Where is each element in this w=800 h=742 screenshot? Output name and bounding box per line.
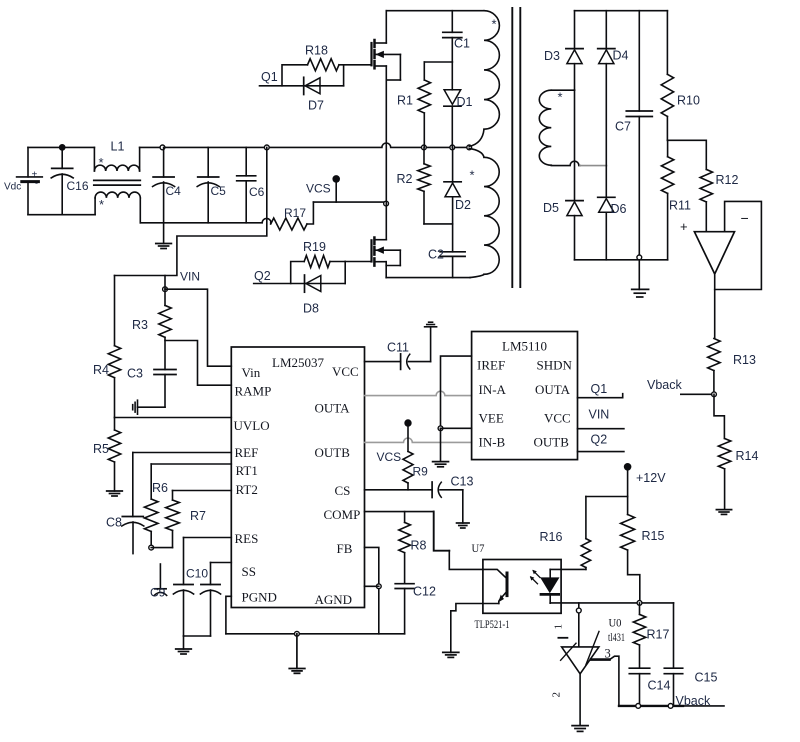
wire Vback rail <box>619 705 724 707</box>
label D3 <box>544 49 560 63</box>
pin VCC <box>544 411 571 426</box>
svg-text:IN-B: IN-B <box>479 435 506 450</box>
transformer core <box>512 8 520 287</box>
ground <box>443 652 459 657</box>
svg-text:D8: D8 <box>303 302 319 316</box>
polarity mark <box>470 168 475 183</box>
label C1 <box>454 37 470 51</box>
svg-text:*: * <box>99 155 104 170</box>
capacitor C10 <box>173 585 193 637</box>
wire pin3 <box>591 656 619 706</box>
label D4 <box>613 49 629 63</box>
node <box>576 608 581 613</box>
wire CS <box>365 489 433 491</box>
label R13 <box>733 353 756 367</box>
battery Vdc <box>17 147 43 214</box>
svg-text:FB: FB <box>337 541 353 556</box>
node <box>668 704 673 709</box>
wire <box>578 603 580 646</box>
svg-text:Vback: Vback <box>647 378 682 392</box>
svg-text:U0: U0 <box>609 616 622 630</box>
wire RES <box>184 538 232 585</box>
pin RT1 <box>236 463 258 478</box>
ground <box>176 636 192 654</box>
wire <box>28 146 94 148</box>
diode D6 <box>598 197 615 212</box>
svg-text:2: 2 <box>551 692 563 698</box>
wire Q1 line <box>260 85 344 87</box>
svg-text:IREF: IREF <box>477 358 505 373</box>
label C5 <box>211 184 227 198</box>
svg-text:RAMP: RAMP <box>235 384 272 399</box>
svg-text:Q1: Q1 <box>591 382 608 396</box>
label Vdc <box>4 182 21 193</box>
wire COMP <box>365 511 434 513</box>
label VCS2 <box>377 450 402 464</box>
capacitor C15 <box>664 603 682 706</box>
wire <box>714 394 724 438</box>
label C6 <box>249 185 265 199</box>
svg-text:C2: C2 <box>428 248 444 262</box>
node <box>637 601 642 606</box>
svg-text:-: - <box>35 178 38 188</box>
resistor R8 <box>399 512 411 584</box>
svg-text:C13: C13 <box>451 475 474 489</box>
ground inverted <box>425 322 437 327</box>
ground <box>457 490 470 528</box>
svg-text:R11: R11 <box>669 199 691 213</box>
node <box>637 255 642 260</box>
wire Q1 out <box>578 394 623 398</box>
label C13 <box>451 475 474 489</box>
diode D4 <box>598 49 615 64</box>
label C8 <box>106 516 122 530</box>
opto arrows <box>530 570 540 584</box>
svg-text:R17: R17 <box>284 206 306 220</box>
svg-text:VEE: VEE <box>479 411 504 426</box>
svg-text:R19: R19 <box>303 240 326 254</box>
label U7 <box>472 541 485 555</box>
svg-text:VCS: VCS <box>377 450 402 464</box>
diode D4 line <box>605 11 607 260</box>
resistor R13 <box>708 339 720 395</box>
svg-text:OUTB: OUTB <box>534 435 570 450</box>
label R8 <box>411 539 427 553</box>
svg-text:CS: CS <box>335 483 351 498</box>
wire AGND stub <box>365 585 379 587</box>
diode D5 <box>566 201 583 216</box>
svg-text:R10: R10 <box>677 94 700 108</box>
capacitor C9 <box>154 564 167 595</box>
svg-text:R3: R3 <box>132 318 148 332</box>
svg-text:Vin: Vin <box>242 365 261 380</box>
svg-text:C6: C6 <box>249 185 265 199</box>
resistor R5 <box>108 418 120 492</box>
label Q1 <box>261 70 278 84</box>
svg-text:C5: C5 <box>211 184 227 198</box>
pin IREF <box>477 358 505 373</box>
svg-text:RT1: RT1 <box>236 463 258 478</box>
label C11 <box>387 341 409 355</box>
wire <box>586 467 628 497</box>
svg-text:R17: R17 <box>647 628 670 642</box>
wire ground rail <box>226 633 405 635</box>
node <box>163 287 168 292</box>
label +12V <box>636 471 666 485</box>
label D2 <box>455 198 471 212</box>
polarity mark <box>558 90 563 105</box>
node <box>422 145 427 150</box>
label C14 <box>648 679 671 693</box>
wire <box>184 635 211 637</box>
wire secondary top rail <box>575 10 668 12</box>
shunt regulator U0 TL431 <box>558 631 599 673</box>
svg-text:PGND: PGND <box>242 590 277 605</box>
ground <box>716 510 731 515</box>
svg-text:+12V: +12V <box>636 471 666 485</box>
svg-text:LM5110: LM5110 <box>502 339 547 354</box>
wire emitter <box>451 604 499 653</box>
svg-text:SHDN: SHDN <box>537 358 573 373</box>
ground <box>289 634 305 674</box>
svg-text:U7: U7 <box>472 541 485 555</box>
label C7 <box>615 120 631 134</box>
ground <box>632 260 649 297</box>
capacitor C2 <box>440 252 465 278</box>
resistor R7 <box>166 491 180 548</box>
wire LED anode <box>550 568 586 570</box>
wire VCS net <box>313 201 386 203</box>
wire secondary bottom rail <box>575 259 668 261</box>
capacitor C4 <box>153 147 175 222</box>
opto LED <box>541 569 559 603</box>
node +12V dot <box>624 463 632 471</box>
resistor R10 <box>661 11 673 141</box>
capacitor C12 <box>395 584 414 634</box>
svg-text:D2: D2 <box>455 198 471 212</box>
wire <box>165 276 231 367</box>
polarity mark <box>99 197 104 212</box>
diode D8 <box>305 275 321 292</box>
pin SS <box>242 564 256 579</box>
wire <box>430 327 432 362</box>
node <box>438 426 443 431</box>
wire <box>138 406 166 408</box>
wire <box>424 61 452 63</box>
IC U1 LM25037 <box>231 347 364 608</box>
svg-text:R1: R1 <box>397 94 413 108</box>
pin SHDN <box>537 358 573 373</box>
svg-text:C1: C1 <box>454 37 470 51</box>
pin IN-A <box>479 382 507 397</box>
label C12 <box>413 585 436 599</box>
pin Vin <box>242 365 261 380</box>
IC U7 box <box>483 560 561 614</box>
pin IN-B <box>479 435 506 450</box>
capacitor C5 <box>197 147 219 222</box>
pin REF <box>235 445 259 460</box>
wire <box>424 223 453 225</box>
label Q2 out <box>591 433 608 447</box>
pin RES <box>235 531 259 546</box>
label D5 <box>543 201 559 215</box>
resistor R16 <box>581 497 590 570</box>
pin RT2 <box>236 482 258 497</box>
svg-text:C12: C12 <box>413 585 436 599</box>
wire pin2 <box>579 674 581 725</box>
pin OUTA <box>535 382 571 397</box>
node <box>149 545 154 550</box>
label D7 <box>308 99 324 113</box>
wire bottom rail <box>386 277 470 279</box>
label C2 <box>428 248 444 262</box>
wire Q2 line <box>254 283 346 285</box>
wire VCC <box>365 361 401 363</box>
label R5 <box>93 442 109 456</box>
svg-text:R8: R8 <box>411 539 427 553</box>
wire <box>151 547 172 549</box>
pin RAMP <box>235 384 272 399</box>
svg-text:C3: C3 <box>127 367 143 381</box>
label U0 <box>609 616 622 630</box>
pin PGND <box>242 590 277 605</box>
resistor R6 <box>144 464 158 548</box>
svg-text:REF: REF <box>235 445 259 460</box>
ground <box>156 223 172 249</box>
label R18 <box>305 44 328 58</box>
node Vback <box>712 392 717 397</box>
label Q2 <box>254 269 271 283</box>
label pin2 <box>551 692 563 698</box>
label C4 <box>166 184 182 198</box>
resistor R3 <box>159 289 171 337</box>
svg-text:R4: R4 <box>93 363 109 377</box>
svg-text:RT2: RT2 <box>236 482 258 497</box>
opto transistor <box>483 569 507 603</box>
svg-text:C8: C8 <box>106 516 122 530</box>
transformer secondary winding <box>539 90 606 165</box>
label D6 <box>611 202 627 216</box>
node <box>376 584 381 589</box>
node <box>160 145 165 150</box>
wire RT1 <box>151 463 231 465</box>
IC U3 LM5110 <box>472 332 578 460</box>
svg-text:*: * <box>558 90 563 105</box>
svg-text:−: − <box>741 210 749 226</box>
svg-text:Q2: Q2 <box>254 269 271 283</box>
label R17 <box>284 206 306 220</box>
svg-text:D5: D5 <box>543 201 559 215</box>
label TLP521-1 <box>475 617 510 631</box>
wire RT2 <box>173 490 232 492</box>
resistor R14 <box>718 439 730 510</box>
pin VEE <box>479 411 504 426</box>
svg-text:D6: D6 <box>611 202 627 216</box>
capacitor C1 <box>443 11 462 62</box>
wire top rail <box>386 10 484 12</box>
resistor R19 <box>291 256 346 284</box>
svg-text:D3: D3 <box>544 49 560 63</box>
label R4 <box>93 363 109 377</box>
svg-text:UVLO: UVLO <box>234 418 270 433</box>
pin COMP <box>324 507 361 522</box>
label D8 <box>303 302 319 316</box>
svg-text:Vback: Vback <box>676 694 711 708</box>
wire main rail <box>140 143 470 147</box>
label R11 <box>669 199 691 213</box>
svg-text:VCC: VCC <box>332 364 359 379</box>
svg-text:OUTA: OUTA <box>315 401 351 416</box>
pin AGND <box>315 592 353 607</box>
svg-text:*: * <box>492 17 497 32</box>
resistor R1 <box>418 62 430 147</box>
svg-text:*: * <box>99 197 104 212</box>
svg-text:D7: D7 <box>308 99 324 113</box>
svg-text:R9: R9 <box>413 465 429 479</box>
wire VIN out <box>578 428 624 430</box>
pin OUTB <box>534 435 570 450</box>
wire OUTB gray <box>365 438 472 442</box>
label Vback2 <box>676 694 711 708</box>
pin OUTA <box>315 401 351 416</box>
op-amp U2 <box>680 219 735 274</box>
svg-text:C9: C9 <box>150 586 166 600</box>
svg-text:C7: C7 <box>615 120 631 134</box>
transformer primary winding 1 <box>469 11 499 147</box>
label R16 <box>540 530 563 544</box>
label R1 <box>397 94 413 108</box>
ground sideways <box>133 400 138 414</box>
resistor R17 <box>271 202 314 230</box>
resistor R17b <box>633 603 645 668</box>
label VCS <box>306 182 331 196</box>
wire RAMP <box>165 337 231 385</box>
wire Q2 out <box>578 451 624 453</box>
wire UVLO <box>115 417 232 419</box>
svg-text:SS: SS <box>242 564 256 579</box>
wire OUTA gray <box>365 391 472 395</box>
wire bottom filter rail <box>140 218 271 222</box>
label D1 <box>457 95 473 109</box>
resistor R18 <box>282 59 344 86</box>
svg-text:OUTB: OUTB <box>315 445 351 460</box>
svg-text:R13: R13 <box>733 353 756 367</box>
label VIN out <box>589 408 610 422</box>
resistor R4 <box>108 276 120 418</box>
label tl431 <box>608 630 625 644</box>
wire FB <box>365 547 379 633</box>
label L1 <box>111 140 125 154</box>
ground <box>572 726 588 732</box>
wire <box>667 140 706 169</box>
wire opamp out <box>714 274 716 339</box>
label R19 <box>303 240 326 254</box>
svg-text:R2: R2 <box>397 172 413 186</box>
capacitor C14 <box>629 668 649 706</box>
wire VIN tap <box>115 147 267 275</box>
svg-text:R18: R18 <box>305 44 328 58</box>
label LM5110 <box>502 339 547 354</box>
wire PGND <box>226 596 231 634</box>
svg-text:R12: R12 <box>716 173 739 187</box>
junction dot <box>59 144 66 151</box>
wire Vback <box>681 393 712 395</box>
svg-text:R6: R6 <box>152 481 168 495</box>
node <box>264 145 269 150</box>
diode D7 <box>304 77 320 94</box>
svg-text:VCC: VCC <box>544 411 571 426</box>
svg-text:R7: R7 <box>190 509 206 523</box>
ground <box>433 428 449 467</box>
wire cathode rail <box>550 602 673 604</box>
inductor L1 <box>94 147 141 222</box>
wire REF <box>133 452 232 454</box>
transistor M2 <box>372 204 401 278</box>
capacitor C8 <box>122 453 144 554</box>
diode D2 <box>444 147 461 251</box>
pin VCC <box>332 364 359 379</box>
label C9 <box>150 586 166 600</box>
svg-text:RES: RES <box>235 531 259 546</box>
svg-text:Vdc: Vdc <box>4 182 21 193</box>
node <box>295 631 300 636</box>
svg-text:R16: R16 <box>540 530 563 544</box>
label R7 <box>190 509 206 523</box>
svg-text:L1: L1 <box>111 140 125 154</box>
svg-text:C14: C14 <box>648 679 671 693</box>
transformer primary winding 2 <box>469 148 499 277</box>
svg-text:C4: C4 <box>166 184 182 198</box>
svg-text:LM25037: LM25037 <box>272 355 325 370</box>
diode D3 line <box>574 11 576 260</box>
label pin3 <box>605 647 611 661</box>
transistor M1 <box>372 11 401 204</box>
svg-text:+: + <box>680 219 688 234</box>
wire <box>434 512 483 570</box>
svg-text:AGND: AGND <box>315 592 353 607</box>
svg-text:TLP521-1: TLP521-1 <box>475 617 510 631</box>
capacitor C13 <box>432 482 463 498</box>
svg-text:COMP: COMP <box>324 507 361 522</box>
svg-text:VIN: VIN <box>180 270 200 284</box>
diode D1 <box>444 62 461 147</box>
pin UVLO <box>234 418 270 433</box>
svg-text:1: 1 <box>553 624 565 630</box>
svg-text:C11: C11 <box>387 341 409 355</box>
label VIN <box>180 270 200 284</box>
label LM25037 <box>272 355 325 370</box>
label R3 <box>132 318 148 332</box>
svg-text:R14: R14 <box>736 449 759 463</box>
label R15 <box>642 529 665 543</box>
wire gate2 <box>345 262 371 284</box>
svg-text:C15: C15 <box>695 671 718 685</box>
resistor R12 <box>700 169 712 231</box>
node <box>467 145 472 150</box>
node VCS2 dot <box>404 419 411 426</box>
polarity mark <box>492 17 497 32</box>
pin CS <box>335 483 351 498</box>
svg-text:*: * <box>470 168 475 183</box>
capacitor C-SS <box>200 585 220 637</box>
resistor R11 <box>661 140 673 259</box>
svg-text:IN-A: IN-A <box>479 382 507 397</box>
node <box>636 704 641 709</box>
label R12 <box>716 173 739 187</box>
label Vback <box>647 378 682 392</box>
svg-text:D1: D1 <box>457 95 473 109</box>
label Q1 out <box>591 382 608 396</box>
